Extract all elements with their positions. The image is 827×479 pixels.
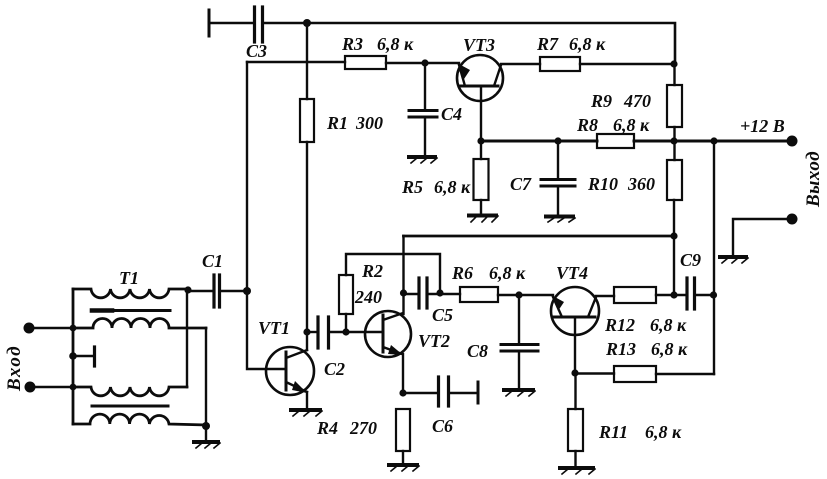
node C5 left/VT2 collector — [400, 289, 407, 296]
svg-text:R2: R2 — [361, 261, 383, 281]
resistor R6 — [460, 287, 498, 302]
wire VT4 base down — [574, 318, 576, 373]
T1 winding W1 — [73, 289, 188, 298]
node R12/C9/R10 — [670, 291, 677, 298]
svg-text:R7: R7 — [536, 34, 559, 54]
T1 winding W4 — [73, 414, 206, 425]
wire R12 to node — [656, 294, 687, 296]
svg-text:C3: C3 — [246, 41, 267, 61]
wire stub to C3 — [209, 22, 253, 24]
node VT2 emitter/R4/C6 — [399, 389, 406, 396]
terminal input bottom — [25, 382, 36, 393]
capacitor C3 — [253, 7, 256, 42]
svg-text:R6: R6 — [451, 263, 473, 283]
resistor R13 — [614, 366, 656, 382]
ground under R11 — [560, 466, 593, 470]
svg-text:VT4: VT4 — [556, 263, 588, 283]
wire R10 down to feedback node — [673, 200, 675, 295]
T1 right column W1-W3 — [186, 289, 188, 387]
terminal stub top-left — [208, 10, 211, 36]
transistor VT3 — [457, 55, 503, 101]
resistor R2 — [345, 314, 347, 332]
node bus top input — [70, 325, 77, 332]
svg-text:VT3: VT3 — [463, 35, 495, 55]
wire right column upper — [673, 64, 675, 85]
svg-text:6,8 к: 6,8 к — [569, 34, 606, 54]
wire VT1 emitter down — [306, 392, 308, 408]
wire VT3 base — [480, 87, 482, 141]
T1 screen — [73, 355, 92, 357]
resistor R12 — [614, 287, 656, 303]
svg-text:6,8 к: 6,8 к — [434, 177, 471, 197]
node A junction — [303, 19, 311, 27]
wire C3 to node A — [264, 22, 307, 25]
node rail/R9-R10 — [670, 137, 677, 144]
svg-text:240: 240 — [354, 287, 382, 307]
T1 core 1 — [92, 309, 170, 312]
svg-text:C2: C2 — [324, 359, 345, 379]
wire R7 to right column — [580, 63, 674, 65]
node R2 bottom junction — [342, 328, 349, 335]
svg-text:6,8 к: 6,8 к — [650, 315, 687, 335]
node R7 right junction — [670, 60, 677, 67]
resistor R1 — [306, 23, 308, 99]
svg-text:C4: C4 — [441, 104, 462, 124]
svg-text:R3: R3 — [341, 34, 363, 54]
svg-text:6,8 к: 6,8 к — [377, 34, 414, 54]
node VT4 emitter/R11/R13 — [571, 369, 578, 376]
wire top rail — [307, 23, 675, 64]
wire VT2 collector column — [402, 236, 404, 314]
svg-text:C1: C1 — [202, 251, 223, 271]
wire +12V rail — [481, 140, 597, 143]
wire VT4 collector to R12 — [596, 295, 614, 297]
wire R6 to VT4 base — [498, 294, 553, 296]
wire VT2 emitter down — [402, 354, 404, 393]
resistor R8 — [597, 134, 634, 148]
capacitor C1 — [189, 290, 213, 292]
node rail/R5/VT3 base — [477, 137, 484, 144]
svg-text:270: 270 — [349, 418, 377, 438]
svg-text:Вход: Вход — [4, 345, 25, 392]
svg-text:6,8 к: 6,8 к — [613, 115, 650, 135]
svg-text:300: 300 — [355, 113, 383, 133]
capacitor C5 — [404, 293, 420, 295]
svg-text:C6: C6 — [432, 416, 453, 436]
svg-text:R4: R4 — [316, 418, 338, 438]
wire right drop column — [713, 141, 715, 374]
transistor VT4 — [551, 287, 599, 335]
wire R2 top loop — [346, 254, 440, 293]
node R10/feedback junction — [670, 232, 677, 239]
svg-text:R13: R13 — [605, 339, 636, 359]
wire VT3 collector to R7 — [501, 63, 540, 65]
transistor VT2 — [365, 311, 411, 357]
node bus bottom input — [70, 384, 77, 391]
svg-text:R10: R10 — [587, 174, 618, 194]
svg-text:R8: R8 — [576, 115, 598, 135]
ground under R5 — [469, 214, 496, 218]
node VT1 collector/C2 — [303, 328, 310, 335]
ground under C7 — [546, 215, 573, 219]
svg-text:C5: C5 — [432, 305, 453, 325]
svg-text:+12 В: +12 В — [740, 116, 785, 136]
svg-text:C8: C8 — [467, 341, 488, 361]
transformer T1 bus — [72, 289, 75, 424]
node C5 right/R2 loop — [436, 289, 443, 296]
resistor R7 — [540, 57, 580, 71]
resistor R10 — [667, 160, 682, 200]
capacitor C6 — [403, 392, 437, 394]
svg-text:360: 360 — [627, 174, 655, 194]
node R3/C4 junction — [421, 59, 428, 66]
node rail/C7 — [554, 137, 561, 144]
svg-text:T1: T1 — [119, 268, 139, 288]
wire R9 to rail — [673, 127, 675, 160]
node C1 right/VT1 base column — [243, 287, 251, 295]
svg-text:C7: C7 — [510, 174, 532, 194]
terminal +12V output — [787, 136, 798, 147]
T1 winding W3 — [73, 387, 187, 396]
svg-text:R9: R9 — [590, 91, 612, 111]
wire R3 row left — [247, 61, 345, 63]
node C1 left/T1 — [184, 286, 191, 293]
ground output — [720, 255, 746, 259]
capacitor C9 — [685, 278, 688, 309]
node rail/right column — [710, 137, 717, 144]
node bus screen — [69, 352, 77, 360]
T1 core 2 — [92, 405, 168, 408]
svg-text:Выход: Выход — [803, 151, 824, 208]
wire R3 to VT3 — [386, 62, 459, 64]
resistor R3 — [345, 56, 386, 69]
wire emitter row to R13 — [575, 372, 614, 374]
wire left bias column — [247, 62, 285, 369]
wire C2 to VT2 base — [329, 331, 383, 333]
T1 right column W2-W4 — [205, 328, 207, 441]
ground under C8 — [504, 388, 533, 392]
resistor R11 — [574, 373, 576, 409]
svg-text:VT1: VT1 — [258, 318, 290, 338]
ground under R4 — [389, 463, 417, 467]
capacitor C4 — [424, 63, 426, 110]
svg-text:C9: C9 — [680, 250, 701, 270]
svg-text:R12: R12 — [604, 315, 635, 335]
wire output lower to ground — [733, 219, 792, 255]
capacitor C8 — [518, 295, 520, 344]
ground under T1 — [194, 440, 218, 444]
wire R13 right up — [656, 373, 714, 375]
svg-text:6,8 к: 6,8 к — [651, 339, 688, 359]
svg-text:6,8 к: 6,8 к — [645, 422, 682, 442]
svg-text:R1: R1 — [326, 113, 348, 133]
wire input top — [33, 327, 73, 329]
T1 winding W2 — [73, 319, 206, 328]
resistor R5 — [480, 141, 482, 159]
ground under VT1 — [291, 408, 320, 412]
terminal output lower — [787, 214, 798, 225]
capacitor C2 — [307, 331, 318, 333]
resistor R9 — [667, 85, 682, 127]
ground under C4 — [409, 155, 435, 159]
capacitor C7 — [557, 141, 559, 179]
node T1 W4/ground — [202, 422, 210, 430]
node R6/C8 junction — [515, 291, 522, 298]
svg-text:VT2: VT2 — [418, 331, 450, 351]
terminal bar C6 right — [477, 382, 480, 403]
terminal input top — [24, 323, 35, 334]
svg-text:470: 470 — [623, 91, 651, 111]
wire input bottom — [34, 386, 73, 388]
svg-text:R5: R5 — [401, 177, 423, 197]
wire feedback long — [404, 235, 675, 238]
svg-text:R11: R11 — [598, 422, 628, 442]
svg-text:6,8 к: 6,8 к — [489, 263, 526, 283]
resistor R4 — [396, 409, 410, 451]
node C9 right — [710, 291, 717, 298]
transistor VT1 — [266, 347, 314, 395]
